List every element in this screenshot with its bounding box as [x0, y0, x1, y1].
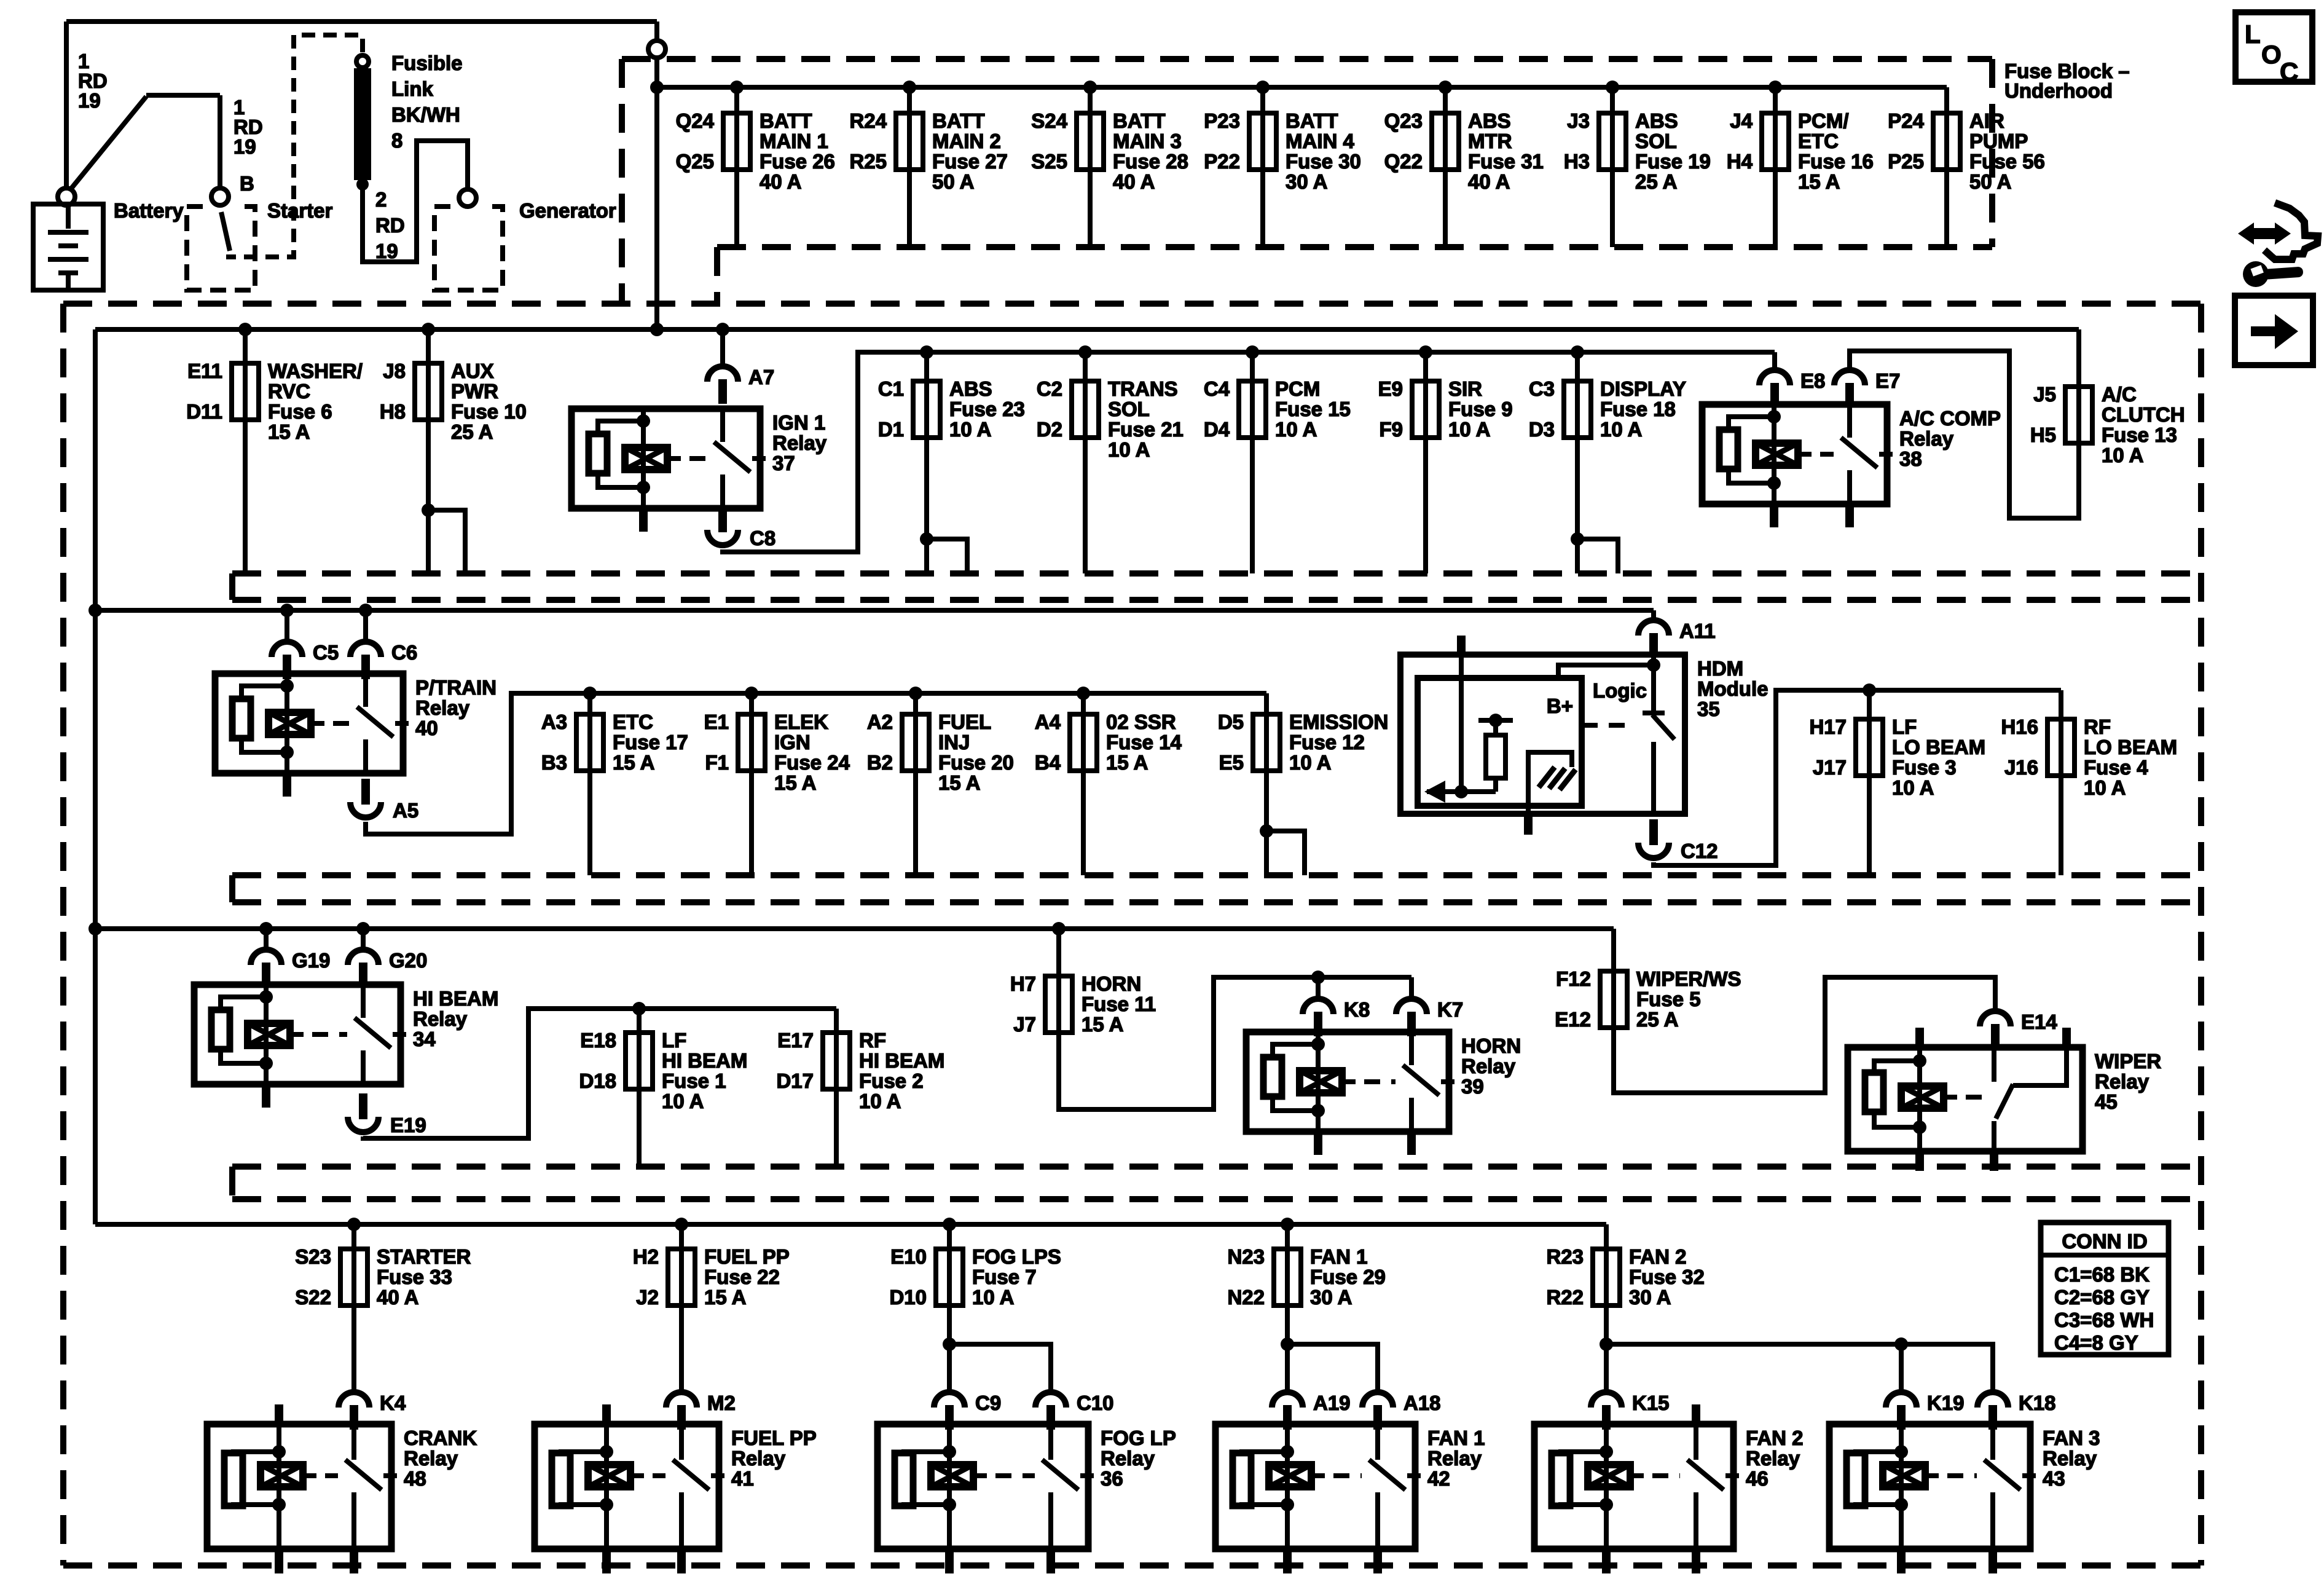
- svg-text:C12: C12: [1681, 840, 1718, 862]
- svg-text:J4: J4: [1730, 109, 1753, 132]
- svg-text:Q24: Q24: [676, 109, 715, 132]
- svg-text:E10: E10: [890, 1245, 927, 1268]
- svg-text:42: 42: [1427, 1467, 1450, 1490]
- svg-text:37: 37: [772, 452, 795, 474]
- svg-text:H17: H17: [1809, 715, 1847, 738]
- svg-text:EMISSION: EMISSION: [1289, 711, 1388, 733]
- svg-text:10 A: 10 A: [972, 1286, 1014, 1309]
- svg-text:10 A: 10 A: [1600, 418, 1642, 441]
- svg-text:A7: A7: [748, 366, 774, 388]
- svg-text:ETC: ETC: [1798, 130, 1839, 152]
- svg-text:Fuse 22: Fuse 22: [704, 1266, 780, 1288]
- svg-text:WIPER: WIPER: [2095, 1050, 2161, 1073]
- svg-text:C5: C5: [313, 641, 339, 664]
- svg-text:Q23: Q23: [1384, 109, 1423, 132]
- svg-text:G20: G20: [389, 949, 427, 972]
- svg-text:IGN 1: IGN 1: [772, 411, 825, 434]
- svg-text:B4: B4: [1035, 751, 1061, 774]
- svg-text:15 A: 15 A: [1082, 1013, 1123, 1036]
- svg-text:Fuse 56: Fuse 56: [1969, 150, 2045, 173]
- svg-text:Relay: Relay: [413, 1007, 468, 1030]
- svg-text:50 A: 50 A: [932, 170, 974, 193]
- svg-text:J7: J7: [1013, 1013, 1036, 1036]
- svg-text:PUMP: PUMP: [1969, 130, 2028, 152]
- svg-text:40 A: 40 A: [1468, 170, 1510, 193]
- svg-text:B: B: [240, 172, 254, 195]
- svg-text:FUEL PP: FUEL PP: [704, 1245, 790, 1268]
- svg-text:Starter: Starter: [267, 199, 333, 222]
- svg-text:Relay: Relay: [404, 1447, 458, 1470]
- svg-text:J3: J3: [1567, 109, 1590, 132]
- svg-text:10 A: 10 A: [662, 1090, 704, 1112]
- svg-text:E1: E1: [704, 711, 729, 733]
- svg-text:10 A: 10 A: [949, 418, 991, 441]
- svg-text:Fuse 13: Fuse 13: [2102, 423, 2177, 446]
- svg-text:FUEL PP: FUEL PP: [731, 1427, 817, 1449]
- svg-text:Relay: Relay: [2043, 1447, 2097, 1470]
- svg-text:38: 38: [1899, 447, 1922, 470]
- svg-text:D2: D2: [1037, 418, 1062, 441]
- svg-text:40 A: 40 A: [760, 170, 801, 193]
- svg-text:R24: R24: [849, 109, 887, 132]
- svg-text:10 A: 10 A: [2102, 444, 2143, 467]
- svg-text:R25: R25: [849, 150, 887, 173]
- svg-text:ABS: ABS: [1468, 109, 1511, 132]
- svg-text:Fuse 21: Fuse 21: [1108, 418, 1184, 441]
- svg-text:BATT: BATT: [932, 109, 985, 132]
- svg-text:19: 19: [375, 240, 398, 262]
- svg-text:E11: E11: [187, 360, 222, 382]
- svg-text:B+: B+: [1547, 695, 1573, 717]
- svg-text:C3=68 WH: C3=68 WH: [2054, 1309, 2154, 1331]
- svg-text:D11: D11: [186, 400, 222, 423]
- svg-text:C4=8 GY: C4=8 GY: [2054, 1331, 2138, 1354]
- svg-text:Fuse 23: Fuse 23: [949, 398, 1025, 420]
- svg-text:02 SSR: 02 SSR: [1106, 711, 1176, 733]
- svg-text:BATT: BATT: [1113, 109, 1166, 132]
- svg-text:PCM: PCM: [1275, 377, 1320, 400]
- svg-text:50 A: 50 A: [1969, 170, 2011, 193]
- svg-text:30 A: 30 A: [1286, 170, 1327, 193]
- svg-text:C1: C1: [878, 377, 904, 400]
- svg-text:L: L: [2245, 20, 2261, 49]
- svg-text:Fuse 12: Fuse 12: [1289, 731, 1365, 754]
- svg-text:FOG LPS: FOG LPS: [972, 1245, 1061, 1268]
- svg-text:39: 39: [1461, 1075, 1484, 1098]
- svg-text:Relay: Relay: [772, 431, 827, 454]
- svg-text:E7: E7: [1875, 369, 1900, 392]
- svg-text:ABS: ABS: [1635, 109, 1678, 132]
- svg-text:Relay: Relay: [1461, 1055, 1516, 1077]
- svg-text:C9: C9: [975, 1392, 1001, 1414]
- svg-text:34: 34: [413, 1028, 436, 1050]
- svg-text:J2: J2: [636, 1286, 659, 1309]
- svg-text:K19: K19: [1927, 1392, 1965, 1414]
- svg-text:R22: R22: [1546, 1286, 1584, 1309]
- svg-text:C4: C4: [1204, 377, 1230, 400]
- svg-text:Logic: Logic: [1593, 679, 1647, 702]
- svg-text:BK/WH: BK/WH: [391, 103, 460, 126]
- svg-text:30 A: 30 A: [1310, 1286, 1352, 1309]
- svg-text:C: C: [2280, 57, 2298, 86]
- svg-text:H16: H16: [2001, 715, 2038, 738]
- svg-text:N23: N23: [1227, 1245, 1265, 1268]
- svg-text:15 A: 15 A: [1106, 751, 1148, 774]
- svg-text:40: 40: [415, 717, 438, 739]
- svg-text:19: 19: [234, 135, 256, 158]
- svg-text:10 A: 10 A: [1448, 418, 1490, 441]
- svg-text:E14: E14: [2021, 1010, 2057, 1033]
- svg-text:40 A: 40 A: [377, 1286, 418, 1309]
- svg-text:SOL: SOL: [1108, 398, 1150, 420]
- svg-text:D1: D1: [878, 418, 904, 441]
- svg-text:LF: LF: [1892, 715, 1917, 738]
- svg-text:Relay: Relay: [731, 1447, 786, 1470]
- svg-text:SIR: SIR: [1448, 377, 1482, 400]
- svg-text:40 A: 40 A: [1113, 170, 1155, 193]
- svg-text:H7: H7: [1010, 972, 1036, 995]
- svg-text:43: 43: [2043, 1467, 2065, 1490]
- svg-text:A3: A3: [541, 711, 567, 733]
- svg-text:LO BEAM: LO BEAM: [2084, 736, 2177, 758]
- svg-text:E17: E17: [777, 1029, 814, 1052]
- svg-text:CONN ID: CONN ID: [2062, 1230, 2147, 1253]
- svg-text:25 A: 25 A: [451, 420, 493, 443]
- svg-text:Fuse 19: Fuse 19: [1635, 150, 1711, 173]
- svg-text:RD: RD: [375, 214, 405, 237]
- svg-text:F9: F9: [1379, 418, 1403, 441]
- svg-text:MAIN 2: MAIN 2: [932, 130, 1001, 152]
- svg-text:FAN 3: FAN 3: [2043, 1427, 2100, 1449]
- svg-text:36: 36: [1101, 1467, 1123, 1490]
- svg-text:2: 2: [375, 188, 387, 211]
- svg-text:HI BEAM: HI BEAM: [413, 987, 498, 1010]
- svg-text:Relay: Relay: [1746, 1447, 1800, 1470]
- svg-text:Fuse 10: Fuse 10: [451, 400, 527, 423]
- svg-text:H8: H8: [380, 400, 406, 423]
- svg-text:E19: E19: [390, 1114, 426, 1136]
- svg-text:15 A: 15 A: [1798, 170, 1840, 193]
- svg-text:D17: D17: [776, 1069, 814, 1092]
- svg-text:B2: B2: [867, 751, 893, 774]
- svg-text:D4: D4: [1204, 418, 1230, 441]
- svg-text:Link: Link: [391, 77, 433, 100]
- svg-text:STARTER: STARTER: [377, 1245, 471, 1268]
- svg-text:A/C: A/C: [2102, 383, 2137, 406]
- svg-text:F1: F1: [705, 751, 729, 774]
- svg-text:P/TRAIN: P/TRAIN: [415, 676, 497, 699]
- svg-text:SOL: SOL: [1635, 130, 1677, 152]
- svg-text:41: 41: [731, 1467, 754, 1490]
- svg-text:A19: A19: [1313, 1392, 1351, 1414]
- svg-text:15 A: 15 A: [613, 751, 654, 774]
- svg-text:CRANK: CRANK: [404, 1427, 477, 1449]
- svg-text:R23: R23: [1546, 1245, 1584, 1268]
- svg-text:Relay: Relay: [1101, 1447, 1155, 1470]
- svg-text:Fusible: Fusible: [391, 52, 463, 74]
- svg-text:Fuse 16: Fuse 16: [1798, 150, 1874, 173]
- svg-text:HI BEAM: HI BEAM: [859, 1049, 944, 1072]
- svg-text:15 A: 15 A: [938, 771, 980, 794]
- svg-text:AUX: AUX: [451, 360, 494, 382]
- svg-text:WIPER/WS: WIPER/WS: [1636, 967, 1741, 990]
- svg-text:46: 46: [1746, 1467, 1769, 1490]
- svg-text:J5: J5: [2033, 383, 2056, 406]
- svg-text:INJ: INJ: [938, 731, 970, 754]
- svg-text:P22: P22: [1204, 150, 1240, 173]
- svg-text:Relay: Relay: [415, 696, 470, 719]
- svg-text:Q25: Q25: [676, 150, 714, 173]
- svg-text:C3: C3: [1529, 377, 1555, 400]
- svg-text:19: 19: [78, 89, 101, 112]
- svg-text:E8: E8: [1800, 369, 1825, 392]
- svg-text:Relay: Relay: [2095, 1070, 2149, 1093]
- svg-text:48: 48: [404, 1467, 426, 1490]
- svg-text:10 A: 10 A: [1108, 438, 1150, 461]
- svg-text:ETC: ETC: [613, 711, 653, 733]
- svg-text:K7: K7: [1437, 998, 1463, 1021]
- svg-text:C6: C6: [391, 641, 417, 664]
- svg-text:E18: E18: [580, 1029, 616, 1052]
- svg-text:E5: E5: [1219, 751, 1244, 774]
- svg-text:15 A: 15 A: [774, 771, 816, 794]
- svg-text:Fuse 15: Fuse 15: [1275, 398, 1351, 420]
- svg-text:O: O: [2261, 40, 2282, 69]
- svg-text:CLUTCH: CLUTCH: [2102, 403, 2185, 426]
- svg-text:45: 45: [2095, 1090, 2118, 1113]
- svg-text:RVC: RVC: [268, 380, 310, 403]
- svg-text:Fuse 14: Fuse 14: [1106, 731, 1182, 754]
- svg-text:BATT: BATT: [760, 109, 812, 132]
- svg-text:S23: S23: [295, 1245, 331, 1268]
- svg-text:K18: K18: [2019, 1392, 2056, 1414]
- svg-text:30 A: 30 A: [1629, 1286, 1671, 1309]
- svg-text:Module: Module: [1697, 677, 1768, 700]
- svg-text:J16: J16: [2004, 756, 2038, 779]
- svg-text:MTR: MTR: [1468, 130, 1512, 152]
- svg-text:P25: P25: [1888, 150, 1924, 173]
- svg-text:FAN 1: FAN 1: [1310, 1245, 1368, 1268]
- svg-text:Fuse 27: Fuse 27: [932, 150, 1008, 173]
- svg-text:FOG LP: FOG LP: [1101, 1427, 1176, 1449]
- svg-text:PWR: PWR: [451, 380, 498, 403]
- svg-text:K8: K8: [1344, 998, 1370, 1021]
- svg-text:D5: D5: [1218, 711, 1244, 733]
- svg-text:WASHER/: WASHER/: [268, 360, 363, 382]
- svg-text:ABS: ABS: [949, 377, 992, 400]
- svg-text:Fuse 11: Fuse 11: [1082, 993, 1156, 1015]
- svg-text:P23: P23: [1204, 109, 1240, 132]
- svg-text:Fuse 20: Fuse 20: [938, 751, 1014, 774]
- svg-text:Fuse 9: Fuse 9: [1448, 398, 1513, 420]
- svg-text:AIR: AIR: [1969, 109, 2004, 132]
- svg-text:C2=68 GY: C2=68 GY: [2054, 1286, 2149, 1309]
- svg-text:A18: A18: [1403, 1392, 1441, 1414]
- svg-text:Fuse 32: Fuse 32: [1629, 1266, 1705, 1288]
- svg-text:Fuse 26: Fuse 26: [760, 150, 835, 173]
- svg-text:G19: G19: [292, 949, 330, 972]
- svg-text:Fuse 18: Fuse 18: [1600, 398, 1676, 420]
- svg-text:10 A: 10 A: [2084, 776, 2126, 799]
- svg-text:MAIN 4: MAIN 4: [1286, 130, 1354, 152]
- svg-text:Fuse 1: Fuse 1: [662, 1069, 726, 1092]
- svg-text:J8: J8: [383, 360, 406, 382]
- svg-text:C8: C8: [750, 527, 775, 549]
- svg-text:Fuse 6: Fuse 6: [268, 400, 332, 423]
- svg-text:C2: C2: [1037, 377, 1062, 400]
- svg-text:H3: H3: [1564, 150, 1590, 173]
- svg-text:A4: A4: [1035, 711, 1061, 733]
- svg-text:S25: S25: [1031, 150, 1067, 173]
- svg-text:A2: A2: [867, 711, 893, 733]
- svg-text:10 A: 10 A: [859, 1090, 901, 1112]
- svg-text:M2: M2: [707, 1392, 736, 1414]
- svg-text:Underhood: Underhood: [2004, 79, 2113, 102]
- svg-text:HI BEAM: HI BEAM: [662, 1049, 747, 1072]
- svg-text:H2: H2: [633, 1245, 659, 1268]
- svg-text:Fuse 17: Fuse 17: [613, 731, 688, 754]
- svg-text:BATT: BATT: [1286, 109, 1338, 132]
- svg-text:15 A: 15 A: [704, 1286, 746, 1309]
- svg-text:E9: E9: [1378, 377, 1403, 400]
- svg-text:S22: S22: [295, 1286, 331, 1309]
- svg-text:10 A: 10 A: [1892, 776, 1934, 799]
- svg-text:B3: B3: [541, 751, 567, 774]
- svg-text:PCM/: PCM/: [1798, 109, 1849, 132]
- svg-text:Fuse 3: Fuse 3: [1892, 756, 1957, 779]
- svg-text:10 A: 10 A: [1289, 751, 1331, 774]
- svg-text:Fuse 5: Fuse 5: [1636, 988, 1701, 1010]
- svg-text:HDM: HDM: [1697, 657, 1743, 680]
- svg-text:LF: LF: [662, 1029, 686, 1052]
- svg-text:Fuse 29: Fuse 29: [1310, 1266, 1386, 1288]
- svg-text:HORN: HORN: [1082, 972, 1141, 995]
- svg-text:Fuse 2: Fuse 2: [859, 1069, 924, 1092]
- svg-text:Fuse 31: Fuse 31: [1468, 150, 1544, 173]
- svg-text:25 A: 25 A: [1636, 1008, 1678, 1031]
- svg-text:A/C COMP: A/C COMP: [1899, 407, 2001, 430]
- svg-text:Fuse 24: Fuse 24: [774, 751, 850, 774]
- svg-text:10 A: 10 A: [1275, 418, 1317, 441]
- svg-text:D18: D18: [579, 1069, 616, 1092]
- svg-text:Fuse 30: Fuse 30: [1286, 150, 1361, 173]
- svg-text:FAN 1: FAN 1: [1427, 1427, 1485, 1449]
- svg-text:RF: RF: [859, 1029, 886, 1052]
- svg-text:Battery: Battery: [114, 199, 184, 222]
- svg-text:K4: K4: [380, 1392, 406, 1414]
- svg-text:Fuse 33: Fuse 33: [377, 1266, 452, 1288]
- svg-text:E12: E12: [1555, 1008, 1591, 1031]
- svg-text:J17: J17: [1813, 756, 1847, 779]
- svg-text:RF: RF: [2084, 715, 2111, 738]
- svg-text:Relay: Relay: [1427, 1447, 1482, 1470]
- svg-text:K15: K15: [1632, 1392, 1670, 1414]
- svg-text:FAN 2: FAN 2: [1629, 1245, 1687, 1268]
- svg-text:P24: P24: [1888, 109, 1924, 132]
- svg-text:H4: H4: [1727, 150, 1753, 173]
- svg-text:Generator: Generator: [519, 199, 616, 222]
- svg-text:MAIN 3: MAIN 3: [1113, 130, 1182, 152]
- svg-text:N22: N22: [1227, 1286, 1265, 1309]
- svg-text:C1=68 BK: C1=68 BK: [2054, 1263, 2149, 1286]
- svg-text:15 A: 15 A: [268, 420, 310, 443]
- svg-text:A11: A11: [1679, 620, 1716, 642]
- svg-text:DISPLAY: DISPLAY: [1600, 377, 1686, 400]
- svg-text:H5: H5: [2030, 423, 2056, 446]
- svg-text:8: 8: [391, 129, 402, 152]
- svg-text:A5: A5: [393, 799, 418, 822]
- svg-text:D3: D3: [1529, 418, 1555, 441]
- svg-text:FUEL: FUEL: [938, 711, 991, 733]
- svg-text:D10: D10: [889, 1286, 927, 1309]
- svg-text:35: 35: [1697, 698, 1720, 720]
- svg-text:Relay: Relay: [1899, 427, 1954, 450]
- svg-text:MAIN 1: MAIN 1: [760, 130, 828, 152]
- svg-text:HORN: HORN: [1461, 1034, 1521, 1057]
- svg-text:FAN 2: FAN 2: [1746, 1427, 1804, 1449]
- svg-text:TRANS: TRANS: [1108, 377, 1178, 400]
- svg-text:25 A: 25 A: [1635, 170, 1677, 193]
- svg-text:F12: F12: [1556, 967, 1591, 990]
- svg-text:Fuse 7: Fuse 7: [972, 1266, 1037, 1288]
- svg-text:ELEK: ELEK: [774, 711, 828, 733]
- svg-text:Fuse 4: Fuse 4: [2084, 756, 2148, 779]
- svg-text:IGN: IGN: [774, 731, 811, 754]
- svg-text:C10: C10: [1077, 1392, 1114, 1414]
- svg-text:Fuse 28: Fuse 28: [1113, 150, 1188, 173]
- svg-text:Q22: Q22: [1384, 150, 1423, 173]
- svg-text:S24: S24: [1031, 109, 1067, 132]
- svg-text:LO BEAM: LO BEAM: [1892, 736, 1985, 758]
